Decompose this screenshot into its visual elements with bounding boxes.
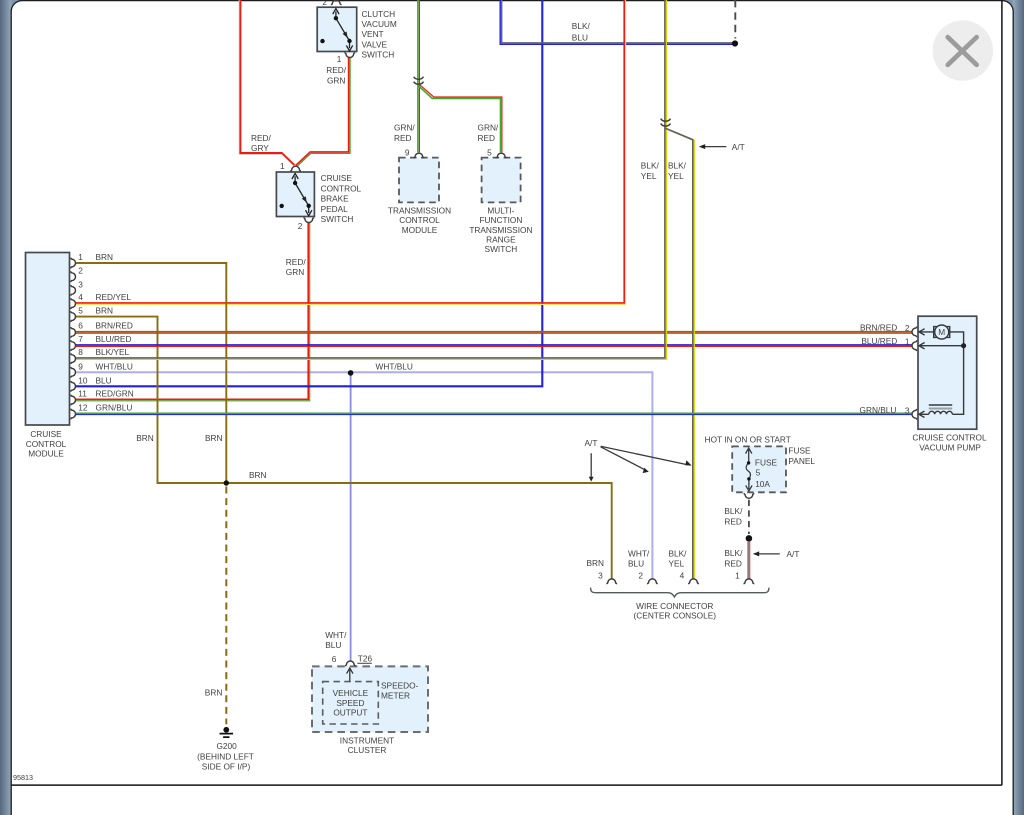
svg-text:1: 1 <box>337 54 342 64</box>
svg-text:8: 8 <box>78 347 83 357</box>
close button <box>933 20 993 80</box>
cruise control brake pedal switch box <box>276 172 314 217</box>
svg-text:4: 4 <box>680 570 685 580</box>
multi-function transmission range switch box (dashed) <box>482 158 521 203</box>
svg-text:SWITCH: SWITCH <box>485 244 518 254</box>
svg-text:BLU/RED: BLU/RED <box>861 336 897 346</box>
svg-text:SWITCH: SWITCH <box>321 214 354 224</box>
svg-text:BRN: BRN <box>96 306 114 316</box>
svg-text:BLU: BLU <box>96 375 112 385</box>
svg-text:CLUTCH: CLUTCH <box>362 9 396 19</box>
pump pin3 dome <box>912 409 917 420</box>
instrument cluster arrow <box>347 668 353 681</box>
svg-text:9: 9 <box>405 148 410 158</box>
wire BRN module pin5 across bottom to wire connector pin3 <box>75 317 612 579</box>
module pin domes 1-12 <box>71 258 76 269</box>
wire GRN/RED main vertical to TCM pin9 (red) <box>418 0 420 152</box>
svg-text:VENT: VENT <box>362 29 384 39</box>
svg-text:BRAKE: BRAKE <box>321 194 350 204</box>
connector pin domes <box>71 0 917 666</box>
vehicle speed output box (dashed) <box>323 682 379 724</box>
cruise control module box <box>26 253 70 426</box>
svg-text:FUNCTION: FUNCTION <box>479 215 522 225</box>
wire connector pin3 dome <box>606 579 617 584</box>
svg-text:3: 3 <box>905 405 910 415</box>
wire BLK/RED solid to wire connector pin1 (gray) <box>747 542 749 579</box>
wire BRN/RED module pin6 to pump pin2 (red) <box>75 332 912 334</box>
svg-text:METER: METER <box>381 690 410 700</box>
pump pin1 dome <box>912 340 917 351</box>
svg-text:1: 1 <box>905 337 910 347</box>
svg-text:12: 12 <box>78 402 88 412</box>
svg-text:BRN/RED: BRN/RED <box>96 321 133 331</box>
svg-text:M: M <box>938 327 945 337</box>
junction dot pump internal <box>961 343 966 348</box>
svg-text:RED: RED <box>724 517 742 527</box>
wire connector pin1 dome <box>744 579 755 584</box>
svg-text:RED/: RED/ <box>326 65 347 75</box>
instrument cluster T26 dome <box>345 661 356 666</box>
svg-text:BRN: BRN <box>96 252 114 262</box>
svg-text:BLK/: BLK/ <box>724 548 743 558</box>
svg-text:A/T: A/T <box>585 438 598 448</box>
A/T pointer arrows (bottom group) <box>591 446 687 477</box>
svg-text:11: 11 <box>78 388 87 398</box>
svg-text:VACUUM PUMP: VACUUM PUMP <box>919 442 981 452</box>
brake switch internals <box>280 173 312 215</box>
svg-text:CRUISE: CRUISE <box>30 429 62 439</box>
svg-text:A/T: A/T <box>787 549 800 559</box>
svg-text:TRANSMISSION: TRANSMISSION <box>469 225 532 235</box>
svg-text:SIDE OF I/P): SIDE OF I/P) <box>202 761 251 771</box>
svg-text:2: 2 <box>322 0 327 7</box>
junction dot BRN <box>224 480 229 485</box>
transmission control module box (dashed) <box>399 158 439 203</box>
wire RED/GRN clutch pin1 to brake pedal switch pin1 (red) <box>296 57 349 166</box>
wire RED/GRY <box>240 0 294 165</box>
svg-text:GRN/: GRN/ <box>478 122 499 132</box>
svg-text:RED: RED <box>394 133 412 143</box>
svg-text:RED/: RED/ <box>251 133 272 143</box>
motor brackets <box>934 327 950 338</box>
svg-text:WHT/: WHT/ <box>325 630 347 640</box>
svg-text:CRUISE: CRUISE <box>321 173 353 183</box>
T26 underline <box>357 662 372 664</box>
svg-text:1: 1 <box>280 161 285 171</box>
svg-text:3: 3 <box>598 570 603 580</box>
svg-text:SPEEDO-: SPEEDO- <box>381 681 419 691</box>
TCM pin9 dome <box>414 153 425 158</box>
svg-text:RED: RED <box>724 559 742 569</box>
svg-text:TRANSMISSION: TRANSMISSION <box>388 206 451 216</box>
svg-text:A/T: A/T <box>732 142 745 152</box>
svg-text:CONTROL: CONTROL <box>399 215 440 225</box>
svg-text:G200: G200 <box>216 741 237 751</box>
svg-text:BLU: BLU <box>325 640 341 650</box>
pump pin2 arrow and wire to motor <box>919 329 934 335</box>
wire BLK/RED dashed below fuse <box>748 500 750 534</box>
brake switch pin1 dome <box>290 166 301 171</box>
svg-text:(BEHIND LEFT: (BEHIND LEFT <box>197 751 254 761</box>
svg-text:1: 1 <box>78 252 83 262</box>
svg-text:2: 2 <box>298 221 303 231</box>
svg-text:VALVE: VALVE <box>362 39 388 49</box>
svg-text:GRN/: GRN/ <box>394 122 415 132</box>
svg-text:OUTPUT: OUTPUT <box>333 707 367 717</box>
svg-text:BLK/: BLK/ <box>668 160 687 170</box>
fuse panel bottom dome <box>744 494 755 499</box>
svg-text:RED/: RED/ <box>286 257 307 267</box>
svg-text:95813: 95813 <box>13 773 33 782</box>
wire BRN module pin1 down to junction <box>75 263 226 482</box>
wire GRN/BLU module pin12 to pump pin3 (green) <box>75 412 912 414</box>
pump internals <box>919 325 964 418</box>
inline connector BLK/YEL arcs <box>661 119 671 122</box>
pump pin3 arrow and wire to coil <box>919 411 929 417</box>
svg-text:HOT IN ON OR START: HOT IN ON OR START <box>705 434 791 444</box>
wire RED/GRN module pin11 to brake pedal switch pin2 (red) <box>75 222 308 399</box>
fuse down arrow <box>746 479 752 491</box>
wire GRN/RED branch to MFTRS pin5 (green) <box>418 86 500 153</box>
svg-text:BRN/RED: BRN/RED <box>860 322 897 332</box>
svg-text:CRUISE CONTROL: CRUISE CONTROL <box>912 432 987 442</box>
wire connector pin2 dome <box>647 579 658 584</box>
svg-text:5: 5 <box>487 148 492 158</box>
svg-text:3: 3 <box>78 279 83 289</box>
wire BLU/RED module pin7 to pump pin1 (blue) <box>75 344 912 346</box>
fuse terminal dots <box>747 461 750 464</box>
svg-text:BLK/: BLK/ <box>641 160 660 170</box>
svg-text:VEHICLE: VEHICLE <box>333 688 369 698</box>
clutch switch pin2 dome <box>331 0 342 5</box>
svg-text:MULTI-: MULTI- <box>487 206 514 216</box>
svg-text:5: 5 <box>756 467 761 477</box>
svg-text:BLU: BLU <box>572 33 588 43</box>
pump pin1 arrow and wire to rail <box>919 343 964 349</box>
svg-text:RED/YEL: RED/YEL <box>96 292 132 302</box>
svg-text:WHT/BLU: WHT/BLU <box>376 362 413 372</box>
svg-text:PEDAL: PEDAL <box>321 204 349 214</box>
svg-text:GRN/BLU: GRN/BLU <box>860 405 897 415</box>
svg-text:(CENTER CONSOLE): (CENTER CONSOLE) <box>634 611 717 621</box>
wire WHT/BLU module pin9 to wire connector pin2 <box>75 372 652 579</box>
svg-text:2: 2 <box>905 323 910 333</box>
svg-text:WIRE CONNECTOR: WIRE CONNECTOR <box>636 601 713 611</box>
wire RED/GRN module pin11 to brake pedal switch pin2 (green) <box>75 222 310 401</box>
svg-text:BLK/YEL: BLK/YEL <box>96 347 130 357</box>
svg-text:5: 5 <box>78 306 83 316</box>
svg-text:6: 6 <box>78 321 83 331</box>
svg-text:T26: T26 <box>358 654 373 664</box>
svg-text:YEL: YEL <box>668 171 684 181</box>
svg-text:RED: RED <box>478 133 496 143</box>
clutch switch pin1 dome <box>344 53 355 58</box>
wire motor to right rail down to coil <box>949 332 964 414</box>
wire GRN/RED main vertical to TCM pin9 (green) <box>417 0 419 152</box>
wire connector brace (center console) <box>591 588 769 597</box>
svg-text:6: 6 <box>332 654 337 664</box>
wire GRN/BLU module pin12 to pump pin3 (blue) <box>75 414 912 416</box>
clutch switch internals <box>320 9 352 51</box>
inline connector GRN/RED arcs <box>414 77 424 80</box>
svg-text:VACUUM: VACUUM <box>362 19 397 29</box>
brake switch pin2 dome <box>303 218 314 223</box>
svg-text:CLUSTER: CLUSTER <box>348 745 387 755</box>
svg-text:RANGE: RANGE <box>486 234 516 244</box>
svg-text:GRY: GRY <box>251 143 269 153</box>
instrument cluster box (dashed) <box>312 666 428 732</box>
junction dot BLK/RED <box>746 535 753 542</box>
svg-text:2: 2 <box>638 570 643 580</box>
svg-text:BLK/: BLK/ <box>669 548 688 558</box>
pump pin2 dome <box>912 327 917 338</box>
svg-text:CONTROL: CONTROL <box>321 183 362 193</box>
wire RED/GRN clutch pin1 to brake pedal switch pin1 (green) <box>297 57 350 167</box>
wire BLK/RED solid to wire connector pin1 (red) <box>749 542 751 579</box>
clutch vacuum vent valve switch box <box>317 7 357 51</box>
svg-text:BLK/: BLK/ <box>572 21 591 31</box>
wire RED/GRN stub above clutch switch pin 2 <box>336 0 338 2</box>
junction dot WHT/BLU <box>348 370 354 376</box>
svg-text:PANEL: PANEL <box>788 456 815 466</box>
wire BLK/YEL module pin8 up to top (yellow) <box>75 0 666 359</box>
wire BLK/BLU (blue) <box>500 0 735 44</box>
svg-text:GRN: GRN <box>327 75 345 85</box>
wire BLU module pin10 up to top <box>75 0 542 386</box>
svg-text:BRN: BRN <box>136 433 154 443</box>
wire BRN/RED module pin6 to pump pin2 (brown) <box>75 331 912 333</box>
coil humps <box>929 411 953 414</box>
svg-text:WHT/BLU: WHT/BLU <box>96 361 133 371</box>
fuse element S-curve <box>746 463 750 479</box>
wire BLK/BLU dashed stub to top <box>734 0 736 39</box>
svg-text:2: 2 <box>78 266 83 276</box>
wire WHT/BLU branch down to instrument cluster T26 <box>350 373 352 661</box>
svg-text:GRN/BLU: GRN/BLU <box>96 402 133 412</box>
svg-text:BLU: BLU <box>628 559 644 569</box>
svg-text:SWITCH: SWITCH <box>362 49 395 59</box>
svg-text:YEL: YEL <box>641 171 657 181</box>
svg-text:MODULE: MODULE <box>28 448 64 458</box>
svg-text:GRN: GRN <box>286 267 304 277</box>
svg-text:BRN: BRN <box>205 433 223 443</box>
ground G200 symbol <box>223 727 229 733</box>
wire BLK/YEL module pin8 up to top (gray) <box>75 0 665 358</box>
svg-text:INSTRUMENT: INSTRUMENT <box>340 736 394 746</box>
wire BRN dashed to ground G200 <box>225 487 227 725</box>
svg-text:10A: 10A <box>755 479 770 489</box>
coil core lines <box>929 404 952 406</box>
A/T pointer arrow (top right, BLK/YEL) <box>705 146 726 148</box>
svg-text:BLK/: BLK/ <box>724 506 743 516</box>
wire RED/YEL module pin4 up to top (red) <box>75 0 624 303</box>
fuse panel internals <box>746 448 753 491</box>
fuse up arrow <box>746 448 752 463</box>
svg-text:10: 10 <box>78 375 88 385</box>
svg-text:BLU/RED: BLU/RED <box>96 334 132 344</box>
cruise control vacuum pump box <box>918 316 977 429</box>
wire BLK/YEL branch to wire connector pin4 (gray) <box>665 128 692 579</box>
svg-text:CONTROL: CONTROL <box>26 439 67 449</box>
svg-text:RED/GRN: RED/GRN <box>96 388 134 398</box>
fuse panel box (dashed) <box>732 446 786 492</box>
svg-text:BRN: BRN <box>249 470 267 480</box>
svg-text:MODULE: MODULE <box>402 225 438 235</box>
wire BLU/RED module pin7 to pump pin1 (red) <box>75 345 912 347</box>
svg-text:FUSE: FUSE <box>755 458 778 468</box>
svg-text:FUSE: FUSE <box>788 445 811 455</box>
svg-text:7: 7 <box>78 334 83 344</box>
svg-text:BRN: BRN <box>587 558 605 568</box>
svg-text:YEL: YEL <box>669 559 685 569</box>
svg-text:9: 9 <box>78 361 83 371</box>
svg-text:SPEED: SPEED <box>336 698 364 708</box>
wire connector pin4 dome <box>688 579 699 584</box>
wire GRN/RED branch to MFTRS pin5 (red) <box>420 85 502 153</box>
wire RED/GRY (gray stripe) <box>239 0 281 154</box>
motor circle <box>935 325 949 339</box>
svg-text:WHT/: WHT/ <box>628 548 650 558</box>
wire BLK/BLU (gray) <box>502 0 735 43</box>
MFTRS pin5 dome <box>496 153 507 158</box>
junction dot BLK/BLU <box>732 40 738 46</box>
A/T pointer arrow (fuse area) <box>759 553 780 555</box>
svg-text:4: 4 <box>78 292 83 302</box>
wire RED/YEL module pin4 up to top (yellow) <box>75 0 626 304</box>
wire BLK/YEL branch to wire connector pin4 (yellow) <box>667 129 695 579</box>
svg-text:1: 1 <box>735 570 740 580</box>
svg-text:BRN: BRN <box>205 687 223 697</box>
